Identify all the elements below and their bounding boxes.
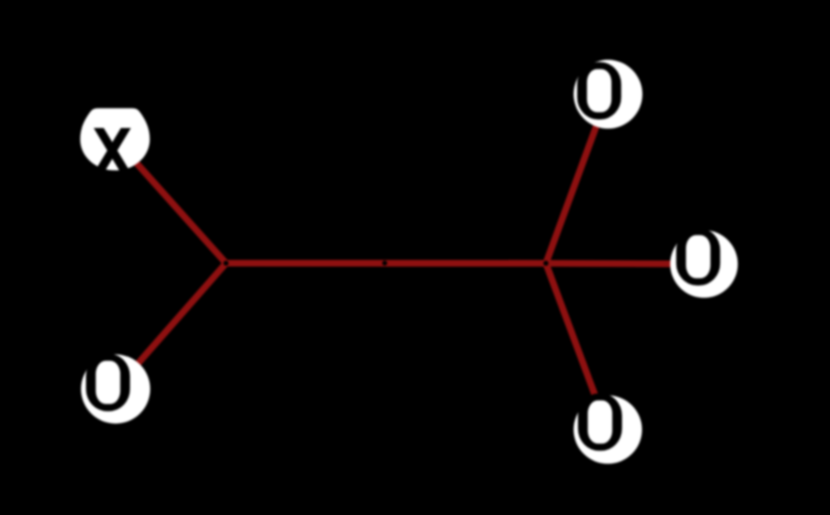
node O bottom-left blob: [81, 354, 150, 423]
node C2 dot: [543, 261, 548, 266]
wire bond C1-O bottom-left: [116, 263, 226, 389]
node O top-right blob: [574, 60, 643, 129]
label O right: [676, 228, 720, 285]
label O top-right: [577, 62, 621, 119]
wire bond C2-O top-right: [546, 94, 608, 263]
wire bond C1-X: [115, 139, 226, 263]
node C-mid dot: [382, 261, 387, 266]
wire bond C2-O bottom-right: [546, 263, 608, 429]
node X blob: [80, 108, 150, 170]
node O right blob: [670, 230, 738, 298]
wire bond C1-C2: [226, 260, 546, 267]
wire bond C2-O right: [546, 260, 704, 267]
node C1 dot: [224, 261, 229, 266]
label X: [94, 128, 131, 173]
label O bottom-right: [578, 393, 622, 450]
label O bottom-left: [86, 354, 130, 411]
node O bottom-right blob: [574, 395, 642, 463]
